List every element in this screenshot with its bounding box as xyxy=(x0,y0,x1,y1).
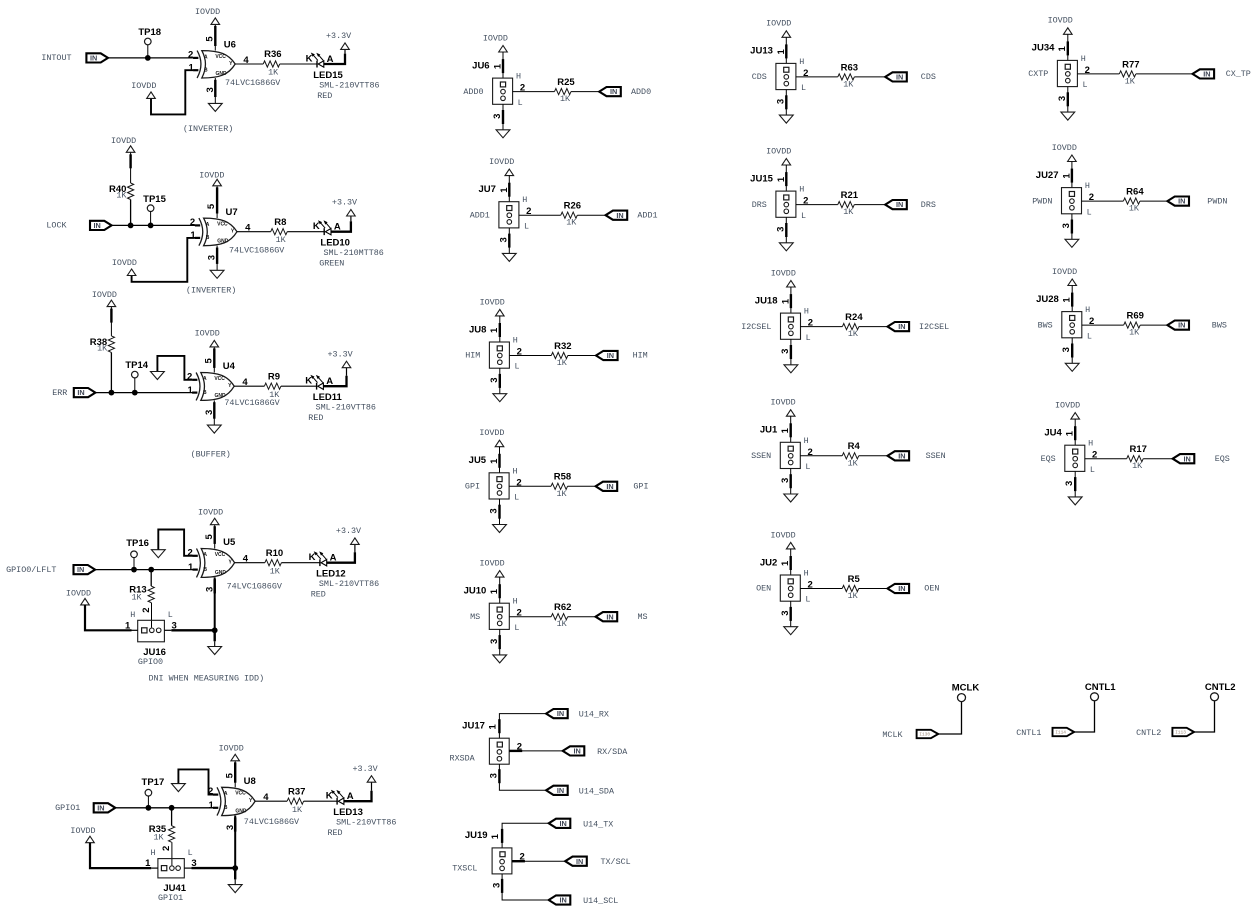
svg-text:IN: IN xyxy=(896,200,903,209)
wire U8 GND pin 3 xyxy=(234,816,236,869)
ground (JU18) xyxy=(784,365,798,373)
svg-text:GREEN: GREEN xyxy=(319,258,344,268)
svg-text:1: 1 xyxy=(190,230,196,241)
svg-text:1: 1 xyxy=(780,560,791,566)
wire JU10 pin 2 to R62 xyxy=(509,616,551,618)
power IOVDD (JU15) xyxy=(766,146,791,165)
power IOVDD (JU16 pin 1) xyxy=(66,588,91,605)
svg-text:H: H xyxy=(1088,439,1093,449)
ground (JU1) xyxy=(784,494,798,502)
svg-text:H: H xyxy=(522,195,527,205)
jumper JU8 xyxy=(469,324,522,382)
svg-text:3: 3 xyxy=(489,773,500,778)
svg-text:I113: I113 xyxy=(1175,730,1186,736)
svg-text:U14_SDA: U14_SDA xyxy=(579,786,615,796)
wire IOVDD to JU2 pin 1 xyxy=(790,549,792,575)
svg-text:B: B xyxy=(224,805,228,811)
svg-text:1: 1 xyxy=(489,327,500,333)
power IOVDD (R38 pull-up) xyxy=(92,290,117,307)
svg-text:U14_RX: U14_RX xyxy=(579,710,609,720)
wire U4 output to R9 xyxy=(234,385,264,387)
svg-text:R9: R9 xyxy=(268,371,280,382)
svg-text:R62: R62 xyxy=(554,602,571,613)
resistor R35 (pull-down) xyxy=(149,808,175,843)
svg-text:JU19: JU19 xyxy=(465,830,488,841)
port IN (GPIO1) xyxy=(94,803,116,812)
svg-text:R10: R10 xyxy=(266,548,283,559)
junction (TP14 node) xyxy=(132,390,138,396)
svg-text:1K: 1K xyxy=(848,329,859,339)
wire JU4 pin 2 to R17 xyxy=(1085,458,1127,460)
svg-text:MS: MS xyxy=(638,612,648,622)
resistor R38 (pull-up) xyxy=(90,336,115,393)
wire U6 GND pin 3 to ground xyxy=(214,78,216,103)
wire ERR input to U4 xyxy=(95,392,193,394)
svg-text:1K: 1K xyxy=(292,805,303,815)
svg-text:R24: R24 xyxy=(845,312,863,323)
wire JU28 pin 3 to ground xyxy=(1071,338,1073,364)
svg-text:B: B xyxy=(203,567,207,573)
svg-text:L: L xyxy=(1087,207,1092,217)
port IN (HIM) xyxy=(596,351,618,360)
svg-text:OEN: OEN xyxy=(756,584,771,594)
wire JU7 pin 2 to R26 xyxy=(519,214,561,216)
svg-text:74LVC1G86GV: 74LVC1G86GV xyxy=(244,817,299,827)
wire U4 VCC to IOVDD xyxy=(213,347,215,373)
svg-text:K: K xyxy=(306,53,313,64)
svg-text:LED12: LED12 xyxy=(316,569,346,580)
svg-text:IOVDD: IOVDD xyxy=(766,19,791,29)
svg-text:H: H xyxy=(130,610,135,620)
port I113 (CNTL2) xyxy=(1172,728,1194,736)
svg-text:+3.3V: +3.3V xyxy=(336,526,361,536)
power IOVDD (JU41 pin 1) xyxy=(70,826,95,843)
svg-text:B: B xyxy=(203,390,207,396)
wire LED15 to +3.3V xyxy=(324,49,345,64)
wire JU17 pin 2 to RX/SDA xyxy=(509,750,563,752)
svg-text:JU28: JU28 xyxy=(1036,294,1059,305)
resistor R4 xyxy=(842,441,860,468)
resistor R26 xyxy=(561,201,581,228)
wire U8 pin 2 (A) to ground xyxy=(178,769,213,794)
svg-text:I2CSEL: I2CSEL xyxy=(741,322,771,332)
port IN (GPI) xyxy=(596,482,618,491)
wire U8 VCC to IOVDD xyxy=(234,761,236,788)
wire R5 to port xyxy=(859,588,888,590)
port IN (U14_RX) xyxy=(546,709,568,718)
svg-text:RED: RED xyxy=(317,91,332,101)
svg-text:R64: R64 xyxy=(1126,187,1144,198)
svg-text:+3.3V: +3.3V xyxy=(326,31,351,41)
svg-text:BWS: BWS xyxy=(1038,320,1053,330)
ground (JU28) xyxy=(1065,363,1079,371)
svg-text:VCC: VCC xyxy=(217,221,228,227)
svg-text:MS: MS xyxy=(470,612,480,622)
svg-text:U6: U6 xyxy=(224,39,236,50)
wire R62 to port xyxy=(568,616,596,618)
wire R58 to port xyxy=(568,485,596,487)
svg-text:EQS: EQS xyxy=(1215,454,1230,464)
wire JU18 pin 3 to ground xyxy=(790,339,792,365)
svg-text:5: 5 xyxy=(204,36,215,42)
power IOVDD (U4 VCC) xyxy=(195,329,220,347)
svg-text:SML-210MTT86: SML-210MTT86 xyxy=(324,248,384,258)
svg-text:3: 3 xyxy=(780,610,791,615)
svg-text:GND: GND xyxy=(235,808,247,814)
svg-text:1: 1 xyxy=(188,562,194,573)
svg-text:2: 2 xyxy=(188,50,193,61)
wire IOVDD to JU7 pin 1 xyxy=(508,176,510,202)
wire LED13 to +3.3V xyxy=(344,782,372,801)
svg-text:1: 1 xyxy=(1061,173,1072,179)
svg-text:IOVDD: IOVDD xyxy=(198,508,223,518)
svg-text:A: A xyxy=(204,54,208,60)
svg-text:LOCK: LOCK xyxy=(46,221,67,231)
resistor R63 xyxy=(838,62,858,89)
svg-text:JU8: JU8 xyxy=(469,324,486,335)
svg-text:3: 3 xyxy=(1057,96,1068,101)
svg-text:I2CSEL: I2CSEL xyxy=(919,322,949,332)
svg-text:JU2: JU2 xyxy=(760,557,777,568)
svg-text:L: L xyxy=(801,211,806,221)
svg-text:IOVDD: IOVDD xyxy=(195,329,220,339)
wire JU1 pin 2 to R4 xyxy=(800,455,842,457)
svg-text:IN: IN xyxy=(1178,321,1185,330)
svg-text:IN: IN xyxy=(559,896,566,905)
test point CNTL1 xyxy=(1085,682,1116,701)
resistor R25 xyxy=(555,77,576,104)
wire R40 to IOVDD xyxy=(130,152,132,183)
svg-text:TP15: TP15 xyxy=(143,194,166,205)
wire R37 to LED13 xyxy=(304,800,338,802)
wire MCLK to test point xyxy=(938,702,961,734)
svg-text:+3.3V: +3.3V xyxy=(332,198,357,208)
svg-text:IN: IN xyxy=(898,322,905,331)
wire JU17 pin 1 to U14_RX xyxy=(499,714,546,739)
svg-text:JU27: JU27 xyxy=(1036,170,1059,181)
wire JU17 pin 3 to U14_SDA xyxy=(499,764,546,790)
svg-text:L: L xyxy=(518,98,523,108)
port IN (PWDN) xyxy=(1167,197,1189,206)
port IN (BWS) xyxy=(1167,321,1189,330)
svg-text:B: B xyxy=(204,67,208,73)
resistor R58 xyxy=(551,472,571,499)
svg-text:IOVDD: IOVDD xyxy=(131,81,156,91)
junction (TP17 node) xyxy=(146,805,152,811)
svg-text:VCC: VCC xyxy=(235,791,246,797)
svg-text:IN: IN xyxy=(1178,197,1185,206)
jumper JU4 xyxy=(1044,428,1097,486)
svg-text:IN: IN xyxy=(896,73,903,82)
svg-text:3: 3 xyxy=(1061,347,1072,352)
svg-text:1K: 1K xyxy=(566,218,577,228)
wire LED11 to +3.3V xyxy=(323,368,346,387)
svg-text:IOVDD: IOVDD xyxy=(1055,401,1080,411)
wire JU13 pin 3 to ground xyxy=(785,90,787,116)
port I114 (CNTL1) xyxy=(1053,728,1075,736)
svg-text:1: 1 xyxy=(1057,45,1068,51)
svg-text:OEN: OEN xyxy=(924,584,939,594)
svg-text:IOVDD: IOVDD xyxy=(92,290,117,300)
jumper JU10 xyxy=(464,586,522,644)
svg-text:R37: R37 xyxy=(288,786,305,797)
wire JU1 pin 3 to ground xyxy=(790,469,792,495)
wire U5 pin 2 (A) to ground xyxy=(158,530,192,556)
svg-text:IOVDD: IOVDD xyxy=(66,588,91,598)
svg-text:R21: R21 xyxy=(841,190,859,201)
svg-text:JU34: JU34 xyxy=(1032,43,1055,54)
test point TP17 xyxy=(142,777,165,806)
ground (U4 pin A) xyxy=(151,372,165,380)
svg-text:JU4: JU4 xyxy=(1044,428,1062,439)
resistor R9 xyxy=(264,371,281,400)
svg-text:H: H xyxy=(150,848,155,858)
svg-text:A: A xyxy=(206,222,210,228)
wire JU41 pin 3 to ground node xyxy=(184,867,235,869)
wire R36 to LED15 xyxy=(280,63,317,65)
svg-text:IOVDD: IOVDD xyxy=(199,170,224,180)
svg-text:ERR: ERR xyxy=(52,388,67,398)
svg-text:HIM: HIM xyxy=(465,351,480,361)
power +3.3V xyxy=(332,198,357,216)
wire U4 GND pin 3 to ground xyxy=(213,400,215,425)
wire IOVDD to JU5 pin 1 xyxy=(499,447,501,473)
wire U6 pin 1 (B) to IOVDD xyxy=(151,70,193,114)
wire IOVDD to JU4 pin 1 xyxy=(1074,419,1076,445)
svg-text:1K: 1K xyxy=(1132,461,1143,471)
resistor R69 xyxy=(1124,311,1144,338)
XOR gate U4 (74LVC1G86GV) xyxy=(187,358,248,415)
wire U7 VCC to IOVDD xyxy=(216,186,218,218)
power +3.3V xyxy=(353,764,378,782)
svg-text:H: H xyxy=(804,436,809,446)
jumper JU19 xyxy=(465,830,525,888)
LED LED11 xyxy=(305,375,376,423)
svg-text:(INVERTER): (INVERTER) xyxy=(186,286,236,296)
wire IOVDD to JU6 pin 1 xyxy=(502,52,504,78)
svg-text:GPIO0/LFLT: GPIO0/LFLT xyxy=(6,565,56,575)
junction (R38 node) xyxy=(109,390,115,396)
ground (JU13) xyxy=(779,115,793,123)
wire JU27 pin 2 to R64 xyxy=(1082,200,1124,202)
wire U5 output to R10 xyxy=(235,562,265,564)
svg-text:JU15: JU15 xyxy=(750,173,773,184)
svg-text:L: L xyxy=(805,462,810,472)
svg-text:H: H xyxy=(513,336,518,346)
wire IOVDD to JU28 pin 1 xyxy=(1071,286,1073,312)
svg-text:H: H xyxy=(512,466,517,476)
svg-text:L: L xyxy=(801,83,806,93)
svg-text:1K: 1K xyxy=(1125,76,1136,86)
jumper JU41 (GPIO1) xyxy=(145,846,196,903)
svg-text:GND: GND xyxy=(215,71,227,77)
ground (JU7) xyxy=(502,253,516,261)
svg-text:IOVDD: IOVDD xyxy=(111,136,136,146)
svg-text:1K: 1K xyxy=(154,832,165,842)
svg-text:IN: IN xyxy=(606,612,613,621)
svg-text:1: 1 xyxy=(1065,430,1076,436)
svg-text:L: L xyxy=(514,493,519,503)
XOR gate U6 (74LVC1G86GV) xyxy=(188,36,249,93)
svg-text:K: K xyxy=(326,791,333,802)
svg-text:1: 1 xyxy=(492,63,503,69)
resistor R24 xyxy=(842,312,863,339)
wire U4 pin 2 (A) to ground xyxy=(157,356,192,380)
power IOVDD (JU34) xyxy=(1048,16,1073,35)
svg-text:U5: U5 xyxy=(223,537,236,548)
svg-text:IOVDD: IOVDD xyxy=(489,157,514,167)
svg-text:K: K xyxy=(309,552,316,563)
resistor R13 (pull-down) xyxy=(129,570,154,603)
svg-text:IN: IN xyxy=(610,87,617,96)
port IN (CX_TP) xyxy=(1193,69,1215,78)
svg-text:K: K xyxy=(305,376,312,387)
svg-text:SML-210VTT86: SML-210VTT86 xyxy=(336,818,396,828)
svg-text:H: H xyxy=(799,57,804,67)
wire JU6 pin 3 to ground xyxy=(502,104,504,130)
jumper JU34 xyxy=(1032,43,1090,101)
ground (JU4) xyxy=(1068,497,1082,505)
wire JU5 pin 2 to R58 xyxy=(509,485,551,487)
wire U6 output to R36 xyxy=(235,63,263,65)
wire JU15 pin 3 to ground xyxy=(785,217,787,243)
svg-text:H: H xyxy=(804,307,809,317)
power IOVDD (JU18) xyxy=(771,268,796,287)
wire JU28 pin 2 to R69 xyxy=(1082,324,1124,326)
svg-text:3: 3 xyxy=(489,508,500,513)
svg-text:1: 1 xyxy=(489,588,500,594)
svg-text:LED11: LED11 xyxy=(313,392,343,403)
jumper JU1 xyxy=(760,425,813,483)
svg-text:R5: R5 xyxy=(848,574,861,585)
svg-text:VCC: VCC xyxy=(214,376,225,382)
ground (U6) xyxy=(208,103,222,111)
svg-text:1: 1 xyxy=(776,176,787,182)
power IOVDD (U6 VCC) xyxy=(195,7,220,24)
wire U5 VCC to IOVDD xyxy=(214,525,216,549)
LED LED15 xyxy=(306,53,380,101)
LED LED10 xyxy=(313,220,384,268)
svg-text:TX/SCL: TX/SCL xyxy=(601,857,631,867)
wire U7 pin 1 (B) to IOVDD xyxy=(132,238,195,282)
wire R63 to port xyxy=(854,76,885,78)
port IN (U14_SCL) xyxy=(549,895,571,904)
svg-text:+3.3V: +3.3V xyxy=(328,349,353,359)
svg-text:R63: R63 xyxy=(841,62,858,73)
wire JU8 pin 2 to R32 xyxy=(509,355,551,357)
port IN (ADD0) xyxy=(599,87,621,96)
svg-text:L: L xyxy=(514,362,519,372)
svg-text:TP16: TP16 xyxy=(126,538,149,549)
svg-text:GPI: GPI xyxy=(633,482,648,492)
svg-text:IN: IN xyxy=(898,451,905,460)
wire R69 to port xyxy=(1140,324,1167,326)
svg-text:RX/SDA: RX/SDA xyxy=(597,747,628,757)
wire R38 to IOVDD xyxy=(110,307,112,336)
svg-text:GPIO1: GPIO1 xyxy=(55,803,80,813)
svg-text:1: 1 xyxy=(499,187,510,193)
LED LED12 xyxy=(309,551,380,599)
svg-text:JU17: JU17 xyxy=(462,720,485,731)
svg-text:L: L xyxy=(514,623,519,633)
port IN (CDS) xyxy=(885,72,907,81)
svg-text:(INVERTER): (INVERTER) xyxy=(183,124,233,134)
wire IOVDD to JU27 pin 1 xyxy=(1071,162,1073,188)
svg-text:CNTL2: CNTL2 xyxy=(1136,728,1161,738)
power +3.3V xyxy=(326,31,351,49)
svg-text:H: H xyxy=(799,185,804,195)
svg-text:SSEN: SSEN xyxy=(751,451,771,461)
ground (JU8) xyxy=(493,394,507,402)
svg-text:JU7: JU7 xyxy=(478,184,495,195)
test point TP18 xyxy=(138,27,161,56)
svg-text:74LVC1G86GV: 74LVC1G86GV xyxy=(227,581,282,591)
svg-text:IOVDD: IOVDD xyxy=(112,258,137,268)
wire JU18 pin 2 to R24 xyxy=(801,326,843,328)
junction (U5 ground node) xyxy=(212,627,218,633)
svg-text:MCLK: MCLK xyxy=(882,730,903,740)
svg-text:H: H xyxy=(1085,181,1090,191)
svg-text:CNTL1: CNTL1 xyxy=(1085,682,1116,693)
svg-text:TP18: TP18 xyxy=(138,27,161,38)
svg-text:2: 2 xyxy=(190,217,195,228)
svg-text:L: L xyxy=(805,595,810,605)
svg-text:GPIO1: GPIO1 xyxy=(158,893,183,903)
svg-text:1: 1 xyxy=(188,385,194,396)
wire JU19 pin 1 to U14_TX xyxy=(502,823,549,848)
wire U7 output to R8 xyxy=(237,231,271,233)
test point TP15 xyxy=(143,194,166,223)
wire R10 to LED12 xyxy=(281,562,320,564)
ground (JU27) xyxy=(1065,239,1079,247)
wire JU19 pin 2 to TX/SCL xyxy=(512,860,565,862)
port IN (LOCK) xyxy=(90,221,112,230)
wire R26 to port xyxy=(577,214,605,216)
wire IOVDD to JU8 pin 1 xyxy=(499,316,501,342)
wire R9 to LED11 xyxy=(281,385,317,387)
svg-text:IOVDD: IOVDD xyxy=(479,428,504,438)
power IOVDD (JU8) xyxy=(480,297,505,316)
svg-text:R77: R77 xyxy=(1122,59,1139,70)
wire JU34 pin 3 to ground xyxy=(1067,87,1069,113)
svg-text:1: 1 xyxy=(490,833,501,839)
svg-text:IOVDD: IOVDD xyxy=(1048,16,1073,26)
svg-text:CXTP: CXTP xyxy=(1028,69,1048,79)
svg-text:IN: IN xyxy=(898,584,905,593)
svg-text:1K: 1K xyxy=(1129,328,1140,338)
jumper JU16 (GPIO0) xyxy=(125,607,177,667)
wire IOVDD to JU10 pin 1 xyxy=(499,577,501,603)
port IN (MS) xyxy=(596,612,618,621)
svg-text:LED13: LED13 xyxy=(333,807,363,818)
junction (R40 node) xyxy=(128,223,134,229)
jumper JU7 xyxy=(478,184,531,242)
wire IOVDD to JU41 pin 1 xyxy=(90,843,158,868)
wire JU13 pin 2 to R63 xyxy=(796,76,838,78)
svg-text:K: K xyxy=(313,221,320,232)
wire CNTL1 to test point xyxy=(1074,701,1094,732)
svg-text:1K: 1K xyxy=(97,344,108,354)
ground (U8) xyxy=(228,885,242,893)
svg-text:IN: IN xyxy=(573,747,580,756)
power IOVDD (U8 VCC) xyxy=(219,744,244,761)
wire JU7 pin 3 to ground xyxy=(508,228,510,254)
junction (U8 ground node) xyxy=(232,865,238,871)
svg-text:IOVDD: IOVDD xyxy=(771,398,796,408)
svg-text:MCLK: MCLK xyxy=(952,683,980,694)
svg-text:IN: IN xyxy=(616,211,623,220)
svg-text:SML-210VTT86: SML-210VTT86 xyxy=(319,579,379,589)
